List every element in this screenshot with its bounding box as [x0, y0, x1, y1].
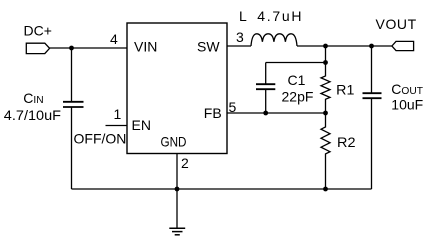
- svg-text:EN: EN: [132, 117, 151, 133]
- svg-text:R2: R2: [337, 134, 356, 150]
- node junction C1 bottom: [263, 111, 268, 116]
- inductor L: [251, 34, 297, 46]
- svg-text:SW: SW: [197, 39, 220, 55]
- node junction GND pin to rail: [175, 187, 180, 192]
- svg-text:OFF/ON: OFF/ON: [74, 131, 127, 147]
- node junction Cout top: [369, 44, 374, 49]
- svg-text:R1: R1: [336, 82, 354, 98]
- resistor R1: [321, 46, 330, 113]
- node junction R1 top: [323, 44, 328, 49]
- wire DC+ to VIN: [50, 47, 127, 49]
- wire SW stub pin 3: [227, 45, 251, 47]
- node junction R2 bottom: [323, 187, 328, 192]
- connector VOUT: [392, 41, 414, 50]
- svg-text:L: L: [239, 8, 247, 24]
- wire C1 top tap: [266, 62, 326, 64]
- pin 1 EN stub (OFF/ON): [106, 125, 128, 127]
- ground symbol: [169, 189, 185, 235]
- svg-text:4.7uH: 4.7uH: [257, 8, 301, 24]
- node junction FB/R1/R2: [323, 111, 328, 116]
- svg-text:C1: C1: [288, 72, 306, 88]
- svg-text:3: 3: [236, 29, 244, 45]
- resistor R2: [321, 113, 330, 189]
- capacitor C1: [256, 63, 275, 114]
- capacitor C_IN: [63, 48, 84, 189]
- svg-text:GND: GND: [161, 134, 187, 150]
- wire bottom ground rail: [72, 188, 372, 190]
- capacitor C_OUT: [363, 46, 382, 189]
- svg-text:22pF: 22pF: [282, 89, 314, 105]
- svg-text:4.7/10uF: 4.7/10uF: [4, 107, 61, 123]
- IC U1 box: [127, 23, 227, 154]
- svg-text:DC+: DC+: [24, 22, 52, 38]
- node junction Cin tap: [69, 46, 74, 51]
- svg-text:FB: FB: [204, 105, 222, 121]
- wire GND pin stub: [176, 154, 178, 190]
- svg-text:4: 4: [110, 31, 118, 47]
- svg-text:10uF: 10uF: [391, 97, 423, 113]
- connector DC+: [26, 43, 49, 53]
- svg-text:2: 2: [181, 155, 189, 171]
- wire L to VOUT: [297, 45, 392, 47]
- svg-text:1: 1: [114, 106, 122, 122]
- svg-text:VOUT: VOUT: [376, 16, 417, 32]
- wire FB line pin 5: [227, 112, 326, 114]
- svg-text:VIN: VIN: [134, 39, 157, 55]
- node junction C1/R1 top tap: [323, 60, 328, 65]
